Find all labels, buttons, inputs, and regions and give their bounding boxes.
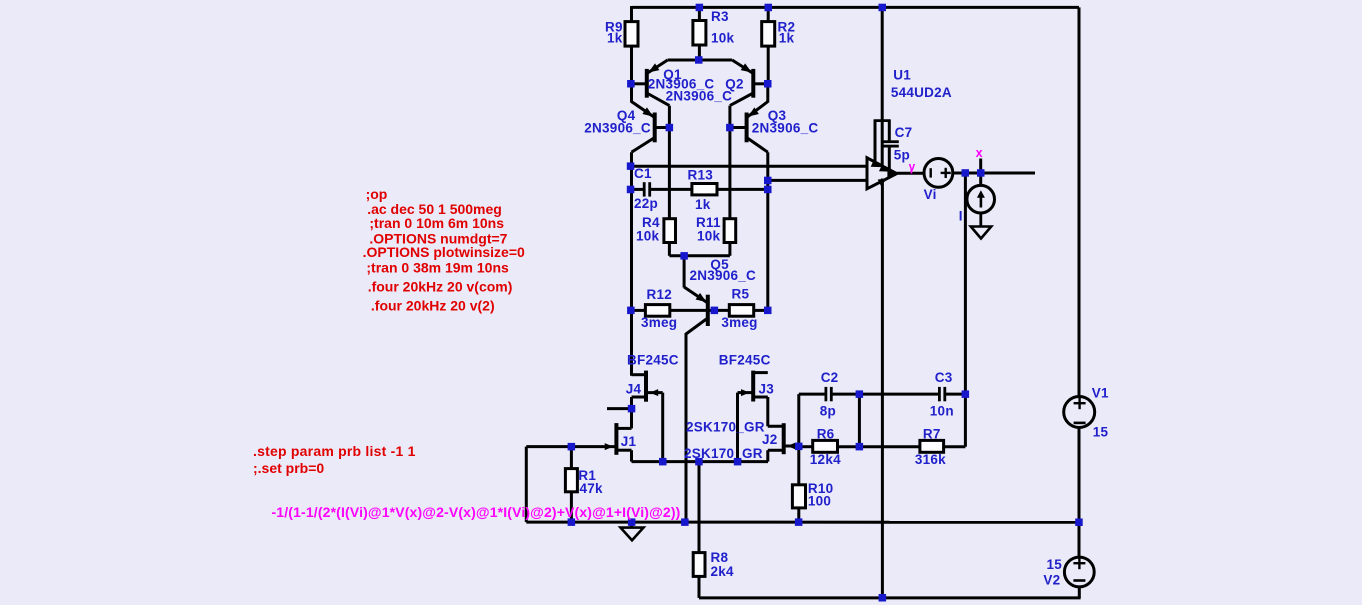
svg-text:8p: 8p	[820, 404, 836, 419]
svg-text:;tran 0 38m 19m 10ns: ;tran 0 38m 19m 10ns	[366, 259, 509, 275]
wire output node	[953, 172, 1035, 175]
wire R4/R11 common node	[669, 254, 730, 257]
transistor Q2 (PNP)	[751, 69, 755, 98]
wire bottom rail -15V	[699, 596, 1081, 599]
svg-text:2SK170_GR: 2SK170_GR	[686, 420, 765, 435]
svg-text:I: I	[959, 208, 963, 223]
svg-text:2N3906_C: 2N3906_C	[666, 89, 733, 104]
capacitor C3	[938, 387, 941, 401]
svg-text:2k4: 2k4	[711, 564, 735, 579]
svg-text:C7: C7	[895, 125, 913, 140]
svg-text:;.set prb=0: ;.set prb=0	[253, 460, 324, 476]
svg-text:12k4: 12k4	[810, 452, 841, 467]
svg-text:-1/(1-1/(2*(I(Vi)@1*V(x)@2-V(x: -1/(1-1/(2*(I(Vi)@1*V(x)@2-V(x)@1*I(Vi)@…	[272, 504, 681, 520]
ground symbol at current source	[979, 213, 982, 227]
wire J2 gate node vertical	[797, 394, 800, 485]
svg-text:J3: J3	[759, 381, 775, 396]
wire C2 to R6 node	[858, 394, 861, 447]
svg-text:1k: 1k	[779, 31, 795, 46]
wire Q1 base to rail	[632, 82, 647, 85]
ground symbol (main)	[630, 522, 633, 528]
svg-text:.step param prb list -1 1: .step param prb list -1 1	[253, 443, 416, 459]
svg-text:544UD2A: 544UD2A	[891, 85, 952, 100]
transistor Q5 (PNP)	[683, 256, 686, 288]
wire J3 gate to source rail	[736, 393, 739, 462]
svg-text:C1: C1	[634, 166, 652, 181]
wire Q5 base row	[670, 309, 730, 312]
svg-text:V2: V2	[1043, 572, 1060, 587]
wire op-amp inverting input (from Q3 collector node)	[768, 179, 867, 182]
resistor R4	[664, 219, 676, 243]
wire ground net horizontal	[526, 521, 1079, 524]
transistor Q3 (PNP)	[745, 113, 749, 143]
svg-text:2N3906_C: 2N3906_C	[690, 268, 757, 283]
resistor R9	[630, 6, 633, 22]
wire op-amp V+ supply from top rail	[881, 7, 884, 166]
resistor R11	[724, 219, 736, 243]
voltage source V2	[1064, 557, 1094, 587]
voltage source V1	[1064, 397, 1095, 428]
wire top rail +15V	[632, 6, 1079, 9]
svg-text:47k: 47k	[580, 481, 604, 496]
svg-text:.four 20kHz 20 v(com): .four 20kHz 20 v(com)	[368, 278, 513, 294]
op-amp U1 544UD2A	[867, 158, 897, 189]
wire J4 gate to source rail	[661, 393, 664, 462]
svg-text:C3: C3	[935, 370, 953, 385]
wire J1 gate loop down	[525, 447, 528, 522]
svg-text:100: 100	[808, 494, 831, 509]
svg-text:.OPTIONS plotwinsize=0: .OPTIONS plotwinsize=0	[363, 244, 525, 260]
svg-text:R6: R6	[817, 426, 835, 441]
svg-text:3meg: 3meg	[641, 315, 677, 330]
svg-text:;op: ;op	[366, 186, 388, 202]
svg-text:U1: U1	[893, 67, 911, 82]
jfet J4 (BF245C)	[632, 373, 647, 376]
svg-text:1k: 1k	[695, 197, 711, 212]
jfet J3 (BF245C)	[753, 371, 768, 374]
voltage probe source Vi	[924, 159, 953, 188]
svg-text:BF245C: BF245C	[627, 353, 679, 368]
svg-text:R8: R8	[711, 550, 729, 565]
svg-text:10k: 10k	[711, 31, 735, 46]
resistor R10	[792, 485, 805, 508]
wire V1 to ground node	[1078, 427, 1081, 557]
transistor Q4 (PNP)	[653, 113, 657, 143]
current source I	[979, 173, 982, 186]
capacitor C7	[874, 120, 877, 164]
svg-text:10k: 10k	[636, 229, 660, 244]
svg-text:5p: 5p	[894, 148, 910, 163]
wire op-amp non-inverting input (from Q4 collector node)	[631, 165, 868, 168]
capacitor C2	[799, 393, 825, 396]
svg-text:R12: R12	[647, 287, 673, 302]
node x stub	[979, 159, 982, 174]
wire Q4 base	[655, 126, 670, 129]
wire Q2 base to rail	[753, 82, 768, 85]
svg-text:V1: V1	[1092, 386, 1109, 401]
wire op-amp V- supply to bottom rail	[881, 179, 884, 598]
svg-text:R5: R5	[732, 287, 750, 302]
wire Q3 base	[730, 126, 747, 129]
svg-text:10n: 10n	[930, 404, 954, 419]
svg-text:2N3906_C: 2N3906_C	[584, 121, 651, 136]
junction dots	[696, 4, 704, 12]
wire stub at J4/J1 node	[607, 407, 632, 410]
resistor R8	[698, 462, 701, 553]
transistor Q1 (PNP)	[645, 69, 649, 98]
resistor R2	[767, 6, 770, 22]
resistor R13	[692, 184, 717, 195]
svg-text:R7: R7	[923, 426, 941, 441]
svg-text:316k: 316k	[915, 452, 946, 467]
resistor R6	[799, 445, 813, 448]
resistor R5	[729, 305, 753, 317]
svg-text:x: x	[976, 146, 983, 160]
wire Q1/Q2 emitter rail	[668, 59, 733, 62]
wire source rail	[632, 460, 769, 463]
resistor R12	[632, 309, 646, 312]
jfet J2 (2SK170_GR)	[768, 425, 784, 428]
svg-text:1k: 1k	[607, 31, 623, 46]
resistor R3	[698, 7, 701, 20]
jfet J1 (2SK170_GR)	[630, 409, 633, 429]
svg-text:15: 15	[1093, 424, 1109, 439]
capacitor C1	[631, 188, 645, 191]
wire Q2 collector to R11	[728, 106, 731, 219]
svg-text:C2: C2	[821, 370, 839, 385]
svg-text:J1: J1	[621, 434, 637, 449]
resistor R1	[570, 447, 573, 469]
wire J1 gate	[526, 445, 616, 448]
svg-text:;tran 0 10m 6m 10ns: ;tran 0 10m 6m 10ns	[369, 215, 504, 231]
wire V2 to bottom rail	[1078, 587, 1081, 598]
wire right rail to V1	[1078, 7, 1081, 397]
resistor R7	[859, 445, 920, 448]
wire feedback node x vertical	[964, 173, 967, 447]
svg-text:R13: R13	[688, 168, 714, 183]
svg-text:.four 20kHz 20 v(2): .four 20kHz 20 v(2)	[371, 297, 495, 313]
svg-text:10k: 10k	[697, 229, 721, 244]
svg-text:Vi: Vi	[924, 187, 937, 202]
svg-text:3meg: 3meg	[721, 315, 757, 330]
svg-text:J4: J4	[626, 381, 642, 396]
wire op-amp output	[897, 172, 924, 175]
svg-text:R3: R3	[711, 9, 729, 24]
svg-text:22p: 22p	[634, 196, 658, 211]
svg-text:BF245C: BF245C	[719, 353, 771, 368]
svg-text:2N3906_C: 2N3906_C	[752, 121, 819, 136]
wire Q1 collector to R4	[668, 106, 671, 219]
svg-text:15: 15	[1047, 557, 1063, 572]
